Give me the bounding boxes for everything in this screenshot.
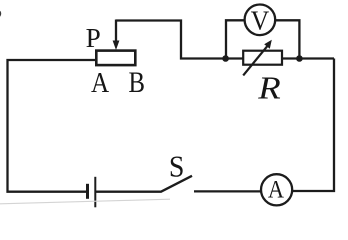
svg-text:S: S — [169, 150, 185, 184]
svg-text:R: R — [257, 71, 281, 106]
svg-text:B: B — [128, 66, 144, 98]
svg-text:A: A — [91, 67, 110, 99]
svg-text:V: V — [251, 4, 269, 35]
svg-text:A: A — [268, 176, 285, 204]
svg-text:P: P — [86, 23, 101, 53]
